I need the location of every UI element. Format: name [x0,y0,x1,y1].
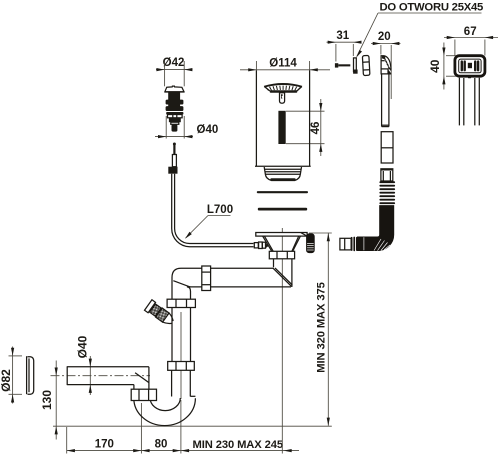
svg-text:Ø42: Ø42 [163,57,185,69]
svg-text:130: 130 [40,390,54,410]
trap U-bend [134,398,196,426]
knob body mid [168,104,180,107]
svg-text:DO OTWORU 25X45: DO OTWORU 25X45 [380,2,484,14]
drain slot bar [278,111,285,144]
trap inlet pipe lower [172,370,196,396]
overflow elbow piece [381,56,391,74]
dimension 67 [444,26,498,56]
cable end nut [254,242,268,249]
strainer dome [264,83,303,87]
dimension 130 [40,361,58,440]
knob stem [172,124,178,131]
knob locknut [169,118,181,122]
overflow hose sleeve [381,132,393,163]
knob washer [166,112,183,115]
dimension D40 knob [155,116,218,139]
svg-text:Ø40: Ø40 [76,335,90,358]
overflow distance sleeve [362,55,370,75]
knob rib 1 [166,100,184,105]
overflow standpipe [382,74,389,127]
flange nut [269,251,294,258]
dimension D114 [240,57,330,71]
trap outlet nut [131,389,156,400]
sink flange plate [256,233,307,237]
dimension D40 outlet pipe [76,335,92,395]
dimension MIN 320 MAX 375 [309,233,332,426]
svg-text:MIN 320 MAX 375: MIN 320 MAX 375 [316,282,328,373]
drain body right wall [309,70,311,166]
overflow hose cuff [381,169,393,181]
svg-text:80: 80 [155,439,168,451]
cable connector block [168,167,177,174]
drain flange bowl [264,167,301,181]
label DO OTWORU 25X45 [356,2,483,58]
overflow hose corrugations [379,181,395,204]
dimension 20 [371,31,401,99]
union nut upper [202,266,211,291]
svg-text:MIN 230 MAX 245: MIN 230 MAX 245 [193,439,284,451]
svg-text:31: 31 [336,30,349,42]
overflow screw [335,63,350,67]
dimension D82 [0,347,22,404]
overflow hose end cap [340,238,351,250]
dimension D42 [156,57,193,86]
cable run [172,174,254,247]
dimension 31 [327,30,362,62]
trap nut 2 [168,362,195,371]
svg-text:67: 67 [464,26,477,38]
outlet pipe [67,366,149,385]
overflow box [455,56,485,78]
trap nut 1 [167,299,195,307]
knob nut [168,115,183,118]
svg-text:170: 170 [95,438,114,450]
drain flange lip [255,165,311,167]
gasket 2 [258,208,307,211]
strainer rim band [270,90,298,93]
svg-text:Ø40: Ø40 [197,124,219,136]
overflow hose end cuff ribs [351,237,363,252]
dimension 170 [67,403,299,454]
dimension 80 [141,400,181,454]
svg-text:Ø82: Ø82 [0,369,13,392]
flange knurled knob [307,234,315,253]
cable pin [173,143,176,155]
overflow hose bend [357,206,393,251]
strainer slots [266,86,300,91]
overflow cover plate [353,58,358,74]
cable pin sleeve [172,155,176,167]
svg-text:Ø114: Ø114 [269,57,297,69]
overflow box drain pipes [459,78,479,126]
drain body left wall [255,70,257,166]
outlet corner [134,367,149,389]
dimension 40 overflow box [428,43,456,90]
elbow [172,268,202,299]
dimension MIN 230 MAX 245 [181,439,292,452]
center axis trap inlet pipe [180,312,182,399]
knob cap [165,86,185,92]
svg-text:L700: L700 [207,204,233,216]
horizontal pipe upper [211,268,291,287]
svg-text:20: 20 [378,31,391,43]
flange funnel [263,236,301,251]
center axis drain column [281,228,283,454]
svg-text:46: 46 [310,122,322,135]
knob rib 2 [166,106,184,111]
trap inlet pipe mid [172,308,191,362]
center axis outlet pipe [51,375,151,377]
svg-text:40: 40 [428,59,442,73]
dishwasher connector [145,300,177,328]
label L700 [185,204,233,239]
wall flange D82 [27,356,34,394]
gasket 1 [257,191,308,193]
knob collar [171,122,179,124]
knob body upper [168,92,180,100]
strainer screw [280,93,285,103]
dimension 46 [286,99,325,156]
tailpiece [273,259,292,287]
floor reference line [53,425,332,427]
